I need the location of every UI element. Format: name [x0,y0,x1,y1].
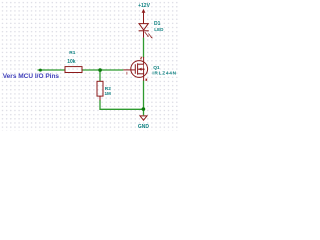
svg-text:LED: LED [154,27,164,32]
svg-text:Vers MCU I/O Pins: Vers MCU I/O Pins [3,73,60,80]
svg-text:+12V: +12V [138,3,150,9]
svg-text:1M: 1M [105,91,112,96]
svg-text:GND: GND [138,124,150,130]
svg-text:D1: D1 [154,21,161,27]
svg-text:10k: 10k [67,59,76,65]
